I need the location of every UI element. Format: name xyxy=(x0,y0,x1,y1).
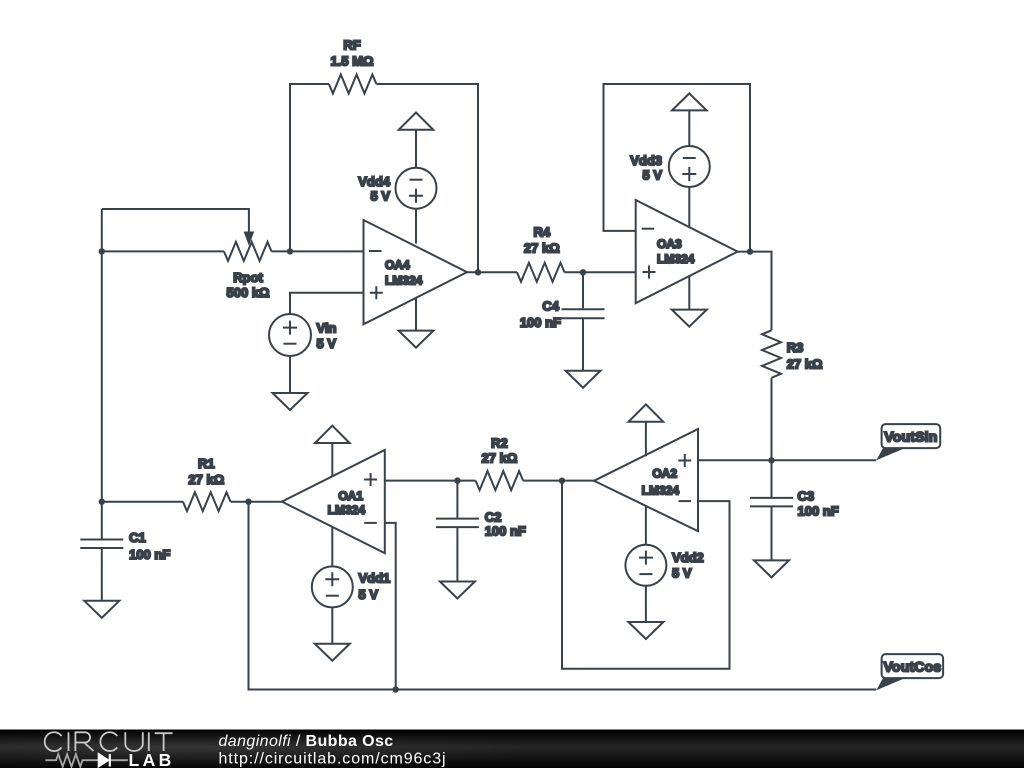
ground below Vin xyxy=(273,393,308,410)
wire OA2 output line to VoutSin xyxy=(698,459,876,461)
power flag VDD4 arrow xyxy=(399,113,434,130)
svg-text:OA4: OA4 xyxy=(385,258,410,272)
resistor R2 zigzag xyxy=(476,471,523,490)
svg-text:LM324: LM324 xyxy=(642,484,680,498)
wire RF right vertical to OA4 output xyxy=(376,84,478,272)
svg-text:27 kΩ: 27 kΩ xyxy=(482,450,518,465)
wire top-left horizontal to Rpot wiper xyxy=(102,209,249,232)
Vdd1 plus glyph xyxy=(325,572,339,586)
resistor RF 1.5M zigzag xyxy=(329,75,376,94)
OA1 minus input glyph xyxy=(364,522,377,524)
Vdd2 plus glyph xyxy=(639,551,653,565)
wire R3 to VoutSin line xyxy=(771,378,773,461)
wire power arrow to OA2 top xyxy=(645,422,647,457)
wire R4 to OA3 noninverting input xyxy=(565,271,636,273)
resistor Rpot 500k zigzag xyxy=(224,242,271,261)
wire Vdd4 circle to power arrow xyxy=(415,130,417,168)
wire OA3 feedback box xyxy=(604,84,751,252)
wire OA4 output to R4 xyxy=(467,271,517,273)
wire RF loop left vertical xyxy=(290,84,329,251)
capacitor C2 plates xyxy=(436,519,479,528)
voltage source Vdd3 circle xyxy=(669,146,710,187)
wire OA1 plus input to R2 xyxy=(385,480,476,482)
svg-text:100 nF: 100 nF xyxy=(798,503,839,518)
voltage source Vdd4 circle xyxy=(396,168,437,209)
svg-text:100 nF: 100 nF xyxy=(485,523,526,538)
net flag VoutSin box xyxy=(882,424,941,448)
OA3 plus input glyph xyxy=(643,266,656,279)
Vin plus glyph xyxy=(283,321,297,335)
wire OA2 bottom to Vdd2 xyxy=(645,506,647,545)
node dot R2 / OA2 loop xyxy=(559,478,565,484)
wire R1 to OA1 output xyxy=(231,501,283,503)
Vdd4 plus glyph xyxy=(409,189,423,203)
svg-text:OA1: OA1 xyxy=(338,489,363,503)
resistor R3 zigzag vertical xyxy=(762,330,781,377)
svg-text:27 kΩ: 27 kΩ xyxy=(188,472,224,487)
wire Vdd3 to OA3 top xyxy=(688,187,690,227)
svg-text:R4: R4 xyxy=(533,225,550,240)
wire Vdd1 to ground xyxy=(331,607,333,643)
wire OA2 feedback loop xyxy=(562,481,730,669)
svg-text:C3: C3 xyxy=(798,488,815,503)
node dot R1 / OA1 output / bottom loop xyxy=(245,499,251,505)
ground below C4 xyxy=(566,371,601,388)
svg-text:Vdd2: Vdd2 xyxy=(672,550,704,565)
svg-text:27 kΩ: 27 kΩ xyxy=(787,357,823,372)
svg-text:R2: R2 xyxy=(491,435,508,450)
svg-text:VoutSin: VoutSin xyxy=(884,428,937,444)
ground below Vdd2 xyxy=(628,622,663,639)
logo resistor-diode squiggle xyxy=(45,754,128,767)
wire Rpot to OA4 inverting input xyxy=(272,250,364,252)
OA4 minus input glyph xyxy=(369,250,382,252)
svg-text:5 V: 5 V xyxy=(359,587,379,602)
wire node A to Rpot xyxy=(102,250,224,252)
svg-text:VoutCos: VoutCos xyxy=(883,658,941,674)
voltage source Vdd1 circle xyxy=(312,566,353,607)
svg-text:500 kΩ: 500 kΩ xyxy=(227,285,270,300)
svg-text:danginolfi / Bubba Osc: danginolfi / Bubba Osc xyxy=(219,733,394,750)
OA1 plus input glyph xyxy=(364,473,377,486)
svg-text:LM324: LM324 xyxy=(657,252,695,266)
resistor R1 zigzag xyxy=(183,492,230,511)
capacitor C3 plates xyxy=(750,498,793,507)
Vdd4 minus glyph xyxy=(410,179,423,181)
svg-text:100 nF: 100 nF xyxy=(129,547,170,562)
node dot R4 / C4 / OA3 xyxy=(580,269,586,275)
ground below C2 xyxy=(440,582,475,599)
op-amp OA2 triangle xyxy=(594,429,698,531)
svg-text:R3: R3 xyxy=(787,340,804,355)
Vdd3 plus glyph xyxy=(682,167,696,181)
wire C1 to ground xyxy=(101,548,103,601)
wire C2 to ground xyxy=(456,527,458,581)
wire R1 left xyxy=(102,501,183,503)
svg-text:C4: C4 xyxy=(542,299,559,314)
wire OA4 bottom to ground xyxy=(415,298,417,331)
wire C4 to ground xyxy=(582,318,584,371)
svg-text:RF: RF xyxy=(343,38,360,53)
svg-text:100 nF: 100 nF xyxy=(520,315,561,330)
ground below OA4 xyxy=(399,331,434,348)
svg-text:LM324: LM324 xyxy=(328,503,366,517)
svg-text:27 kΩ: 27 kΩ xyxy=(524,241,560,256)
op-amp OA4 triangle xyxy=(364,220,468,324)
wire Vdd2 to ground xyxy=(645,586,647,622)
svg-text:LAB: LAB xyxy=(129,750,175,768)
svg-text:C1: C1 xyxy=(129,530,146,545)
wire OA3 bottom to ground xyxy=(688,276,690,309)
wire Vin to ground xyxy=(289,356,291,393)
power flag VDD1 arrow xyxy=(315,426,350,443)
node dot R3 / C3 / VoutSin xyxy=(768,457,774,463)
footer bar xyxy=(0,730,1024,768)
wire C3 to ground xyxy=(771,506,773,560)
op-amp OA3 triangle xyxy=(636,200,738,303)
voltage source Vin circle xyxy=(269,314,311,356)
svg-text:Vin: Vin xyxy=(317,320,337,335)
svg-text:http://circuitlab.com/cm96c3j: http://circuitlab.com/cm96c3j xyxy=(219,751,447,768)
net flag VoutSin tail xyxy=(876,448,905,460)
svg-text:Vdd1: Vdd1 xyxy=(359,571,391,586)
svg-text:5 V: 5 V xyxy=(642,168,662,183)
OA2 plus input glyph xyxy=(678,454,691,467)
ground below C3 xyxy=(754,560,789,577)
resistor R4 zigzag xyxy=(517,263,565,282)
OA2 minus input glyph xyxy=(679,500,692,502)
svg-text:OA3: OA3 xyxy=(657,237,682,251)
node dot Rpot right / RF left xyxy=(287,248,293,254)
svg-text:5 V: 5 V xyxy=(370,189,390,204)
wire Vin plus to OA4 noninverting input xyxy=(290,293,364,314)
ground below Vdd1 xyxy=(315,644,350,661)
node dot left rail / R1 xyxy=(99,499,105,505)
node dot left rail / Rpot xyxy=(99,248,105,254)
op-amp OA1 triangle xyxy=(282,450,385,553)
node dot OA3 output xyxy=(747,248,753,254)
node dot OA4 output / RF xyxy=(475,269,481,275)
wire Vdd4 to OA4 top xyxy=(415,209,417,244)
ground below OA3 xyxy=(672,310,707,327)
potentiometer wiper arrow xyxy=(244,232,255,246)
wire OA1 minus feedback xyxy=(385,523,396,690)
wire OA1 bottom to Vdd1 xyxy=(331,527,333,567)
capacitor C4 plates xyxy=(562,309,605,318)
svg-text:5 V: 5 V xyxy=(672,566,692,581)
wire power arrow to OA1 top xyxy=(331,443,333,476)
svg-text:Vdd4: Vdd4 xyxy=(358,174,391,189)
svg-text:1.5 MΩ: 1.5 MΩ xyxy=(331,54,374,69)
svg-text:OA2: OA2 xyxy=(652,467,677,481)
ground below C1 xyxy=(84,601,119,618)
wire node to C3 xyxy=(771,460,773,497)
svg-text:R1: R1 xyxy=(198,456,215,471)
OA3 minus input glyph xyxy=(642,228,655,230)
Vdd3 minus glyph xyxy=(683,157,696,159)
logo CIRCUIT letters xyxy=(45,732,173,751)
wire bottom long xyxy=(249,502,877,690)
wire OA3 output to R3 xyxy=(738,252,772,331)
Vdd1 minus glyph xyxy=(326,595,339,597)
node dot bottom / OA1 feedback xyxy=(393,686,399,692)
wire R2 to OA2 output xyxy=(523,480,594,482)
svg-text:LM324: LM324 xyxy=(385,274,423,288)
wire left rail vertical xyxy=(101,209,103,539)
voltage source Vdd2 circle xyxy=(625,545,666,586)
Vdd2 minus glyph xyxy=(639,573,652,575)
capacitor C1 plates xyxy=(80,540,123,549)
power flag VDD3 arrow xyxy=(672,93,707,110)
svg-text:5 V: 5 V xyxy=(317,336,337,351)
net flag VoutCos tail xyxy=(876,678,905,690)
net flag VoutCos box xyxy=(882,654,944,678)
Vin minus glyph xyxy=(284,343,297,345)
wire C2 stub xyxy=(456,481,458,518)
wire node to C4 xyxy=(582,272,584,308)
OA4 plus input glyph xyxy=(370,286,383,299)
power flag VDD2 arrow xyxy=(629,404,664,421)
svg-text:Vdd3: Vdd3 xyxy=(630,153,662,168)
node dot C2 / R2 xyxy=(454,477,460,483)
svg-text:Rpot: Rpot xyxy=(233,270,263,285)
wire Vdd3 circle to power arrow xyxy=(688,110,690,146)
